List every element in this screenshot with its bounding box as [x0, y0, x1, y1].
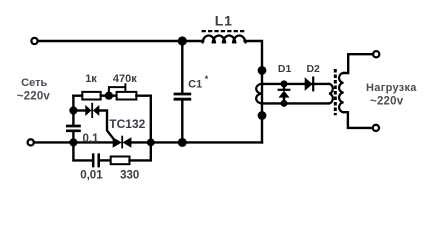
svg-text:D2: D2: [306, 63, 320, 75]
node dot bottom rail left vertical: [69, 138, 77, 146]
svg-text:0,01: 0,01: [80, 170, 103, 182]
wire 470k right corner down: [136, 96, 150, 143]
transformer core dashed: [334, 69, 337, 115]
capacitor C1 plates: [174, 94, 192, 99]
diode D2 triangle: [305, 77, 313, 91]
L1 core dashed: [202, 30, 247, 32]
svg-text:Нагрузка: Нагрузка: [366, 82, 417, 94]
wire diac row right: [99, 111, 113, 139]
wire snubber left: [73, 142, 92, 160]
wire C1 branch lower: [181, 101, 183, 143]
diode D1 cathode bar: [278, 89, 291, 91]
secondary winding top lead: [344, 54, 373, 73]
bottom rail left of triac: [35, 141, 113, 143]
svg-text:~220v: ~220v: [17, 90, 51, 102]
wiper of 470k rheostat: [109, 84, 126, 95]
terminal X4 bottom-right: [373, 125, 379, 131]
wire C3 to R3: [100, 159, 111, 161]
node dot D1 bottom: [281, 100, 288, 107]
node dot D1 top: [281, 80, 288, 87]
diode D2 cathode bar: [312, 77, 314, 92]
svg-text:~220v: ~220v: [370, 96, 404, 108]
svg-text:L1: L1: [215, 12, 233, 28]
node dot right vertical lower: [258, 111, 267, 120]
winding W2 right arcs: [329, 84, 333, 104]
node dot right vertical upper: [258, 66, 267, 75]
svg-text:Сеть: Сеть: [21, 77, 47, 89]
svg-text:*: *: [205, 74, 209, 84]
wire left vertical upper: [72, 96, 74, 125]
wire D1 stubs: [283, 84, 285, 104]
svg-text:1к: 1к: [85, 73, 97, 85]
diac bar: [91, 103, 93, 118]
resistor R3 330 box: [111, 157, 130, 165]
wire R1 to node: [101, 94, 117, 96]
winding W1 left arcs: [256, 84, 262, 104]
wire diac row left: [73, 109, 85, 111]
capacitor C2 0,1 plates: [66, 126, 81, 131]
wire top rail left: [39, 40, 204, 42]
secondary winding arcs: [339, 73, 343, 112]
svg-text:ТС132: ТС132: [109, 117, 145, 131]
node dot diac row: [69, 106, 77, 114]
wire snubber right: [130, 142, 151, 160]
node dot top rail / C1: [178, 36, 187, 45]
wire 1k row left: [73, 94, 82, 96]
bottom rail right of triac: [131, 141, 262, 143]
resistor R1 1k box: [82, 92, 100, 100]
node dot 1k/470k wiper: [105, 92, 113, 100]
transformer loop top rail: [262, 83, 329, 85]
triac bar: [121, 136, 123, 149]
triac VS1 triangles: [113, 137, 122, 148]
svg-text:470к: 470к: [113, 73, 137, 85]
diode D1 triangle: [279, 91, 290, 98]
svg-text:C1: C1: [188, 78, 202, 90]
terminal X1 top-left: [31, 38, 37, 44]
node dot bottom rail C1: [178, 138, 187, 147]
svg-text:330: 330: [120, 170, 139, 182]
terminal X3 top-right: [373, 51, 379, 57]
inductor L1: [203, 35, 246, 42]
wire top rail right: [245, 41, 262, 142]
transformer loop bottom rail: [262, 102, 329, 104]
capacitor C3 0,01 plates: [93, 153, 99, 167]
secondary winding bottom lead: [344, 112, 373, 128]
node dot bottom rail 470k drop: [147, 139, 155, 147]
wire left vertical lower: [72, 132, 74, 143]
resistor R2 470k box: [117, 92, 137, 100]
svg-text:D1: D1: [278, 63, 292, 75]
svg-text:0,1: 0,1: [83, 133, 100, 145]
terminal X2 bottom-left: [28, 139, 34, 145]
diac VD triangles: [85, 105, 91, 116]
wire C1 branch upper: [181, 41, 183, 93]
